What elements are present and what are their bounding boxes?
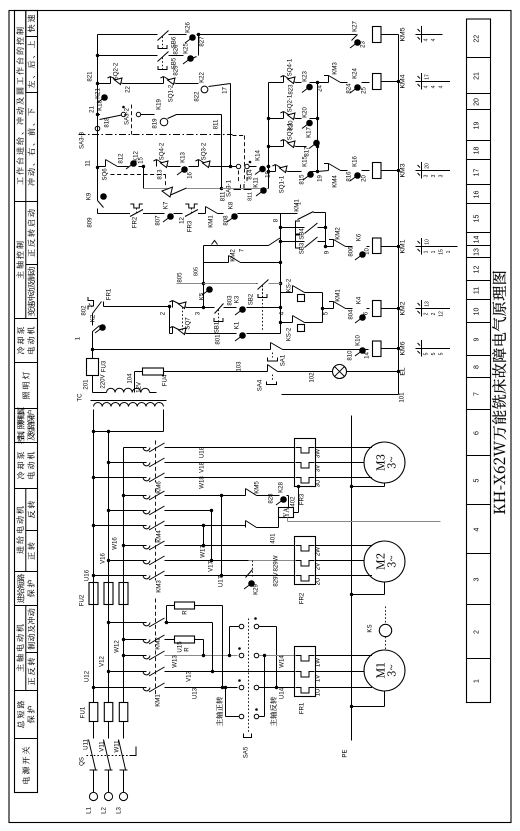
svg-text:K26: K26 (185, 21, 192, 32)
svg-text:4: 4 (431, 85, 437, 88)
svg-text:17: 17 (222, 87, 229, 94)
svg-text:V11: V11 (99, 741, 106, 752)
svg-text:K29: K29 (253, 583, 260, 594)
svg-text:L1: L1 (86, 807, 93, 814)
svg-text:809: 809 (87, 217, 94, 228)
svg-text:2: 2 (424, 312, 430, 315)
svg-text:19: 19 (317, 175, 324, 182)
svg-text:KM3: KM3 (332, 62, 339, 75)
svg-text:K7: K7 (163, 201, 170, 209)
svg-text:822: 822 (194, 91, 201, 102)
svg-text:U15: U15 (177, 641, 184, 653)
svg-text:FU3: FU3 (101, 360, 108, 372)
svg-text:12: 12 (179, 217, 186, 224)
svg-text:PE: PE (342, 749, 349, 757)
svg-text:SQ3-2: SQ3-2 (201, 142, 208, 160)
svg-text:KM4: KM4 (400, 74, 407, 88)
svg-text:KM2: KM2 (335, 227, 342, 240)
svg-text:W11: W11 (114, 740, 121, 753)
svg-text:3W: 3W (315, 449, 322, 458)
svg-text:3U: 3U (315, 480, 322, 488)
svg-text:K22: K22 (199, 71, 206, 82)
svg-text:K5: K5 (199, 292, 206, 300)
svg-text:12: 12 (439, 311, 445, 317)
svg-text:15: 15 (474, 215, 481, 223)
svg-text:V13: V13 (186, 670, 193, 681)
svg-text:W18: W18 (199, 476, 206, 489)
svg-text:25: 25 (361, 87, 368, 94)
svg-text:818: 818 (104, 117, 111, 128)
svg-text:5: 5 (424, 352, 430, 355)
svg-text:K9: K9 (86, 192, 93, 200)
svg-text:3: 3 (424, 174, 430, 177)
svg-text:SB1: SB1 (214, 321, 221, 333)
svg-text:R: R (182, 610, 189, 615)
svg-text:SA3-3: SA3-3 (79, 131, 86, 149)
svg-text:QS: QS (79, 757, 86, 766)
svg-text:FU4: FU4 (162, 374, 169, 386)
svg-text:2: 2 (474, 630, 481, 634)
svg-text:5: 5 (439, 352, 445, 355)
svg-text:FR1: FR1 (106, 288, 113, 300)
svg-text:103: 103 (236, 361, 243, 372)
svg-text:KS-2: KS-2 (286, 278, 293, 292)
svg-text:K1: K1 (234, 321, 241, 329)
svg-text:U13: U13 (192, 687, 199, 699)
svg-text:1: 1 (446, 250, 452, 253)
svg-text:KM2: KM2 (230, 249, 237, 262)
svg-text:K16: K16 (352, 155, 359, 166)
svg-text:SQ3-1: SQ3-1 (287, 122, 294, 140)
svg-text:14: 14 (474, 236, 481, 244)
svg-text:V12: V12 (99, 655, 106, 666)
svg-text:K13: K13 (180, 151, 187, 162)
svg-text:K23: K23 (302, 70, 309, 81)
svg-text:KM1: KM1 (400, 239, 407, 253)
svg-text:SQ4-1: SQ4-1 (287, 58, 294, 76)
svg-text:220V: 220V (100, 373, 107, 388)
svg-text:12V: 12V (136, 381, 143, 393)
svg-text:L2: L2 (101, 807, 108, 814)
svg-text:SQ1-2: SQ1-2 (168, 84, 175, 102)
svg-text:K19: K19 (156, 98, 163, 109)
svg-text:11: 11 (474, 287, 481, 294)
svg-text:825: 825 (173, 65, 180, 76)
svg-text:SB4: SB4 (299, 228, 306, 240)
svg-text:18: 18 (474, 147, 481, 155)
svg-text:K25: K25 (183, 42, 190, 53)
svg-text:SQ2-1: SQ2-1 (287, 94, 294, 112)
svg-text:1V: 1V (315, 674, 322, 682)
svg-text:W17: W17 (200, 545, 207, 558)
svg-text:4: 4 (431, 38, 437, 41)
svg-text:K21: K21 (95, 87, 102, 98)
svg-text:U11: U11 (83, 739, 90, 750)
svg-text:L3: L3 (116, 807, 123, 814)
svg-text:15: 15 (439, 249, 445, 255)
svg-text:K15: K15 (302, 155, 309, 166)
svg-text:817: 817 (304, 146, 311, 157)
svg-text:805: 805 (177, 272, 184, 283)
svg-text:K24: K24 (352, 67, 359, 78)
svg-text:FR3: FR3 (299, 493, 306, 505)
svg-text:K4: K4 (356, 296, 363, 304)
svg-text:KM4: KM4 (156, 530, 163, 543)
svg-text:FU2: FU2 (79, 594, 86, 606)
svg-text:KM5: KM5 (400, 27, 407, 41)
svg-text:22: 22 (125, 86, 132, 93)
svg-text:104: 104 (127, 373, 134, 384)
svg-text:W16: W16 (112, 537, 119, 550)
svg-text:3: 3 (439, 174, 445, 177)
svg-text:KM1: KM1 (208, 215, 215, 228)
svg-text:W14: W14 (279, 655, 286, 668)
svg-text:2V: 2V (315, 562, 322, 570)
svg-text:U14: U14 (279, 687, 286, 699)
svg-text:14: 14 (364, 352, 371, 359)
svg-text:SA1: SA1 (280, 354, 287, 366)
svg-text:13: 13 (474, 248, 481, 256)
svg-text:SQ6: SQ6 (102, 168, 109, 181)
svg-text:KM5: KM5 (254, 481, 261, 494)
svg-text:7: 7 (474, 392, 481, 396)
svg-text:20: 20 (474, 98, 481, 106)
svg-text:3V: 3V (315, 464, 322, 472)
svg-text:K17: K17 (306, 126, 313, 137)
svg-text:KM2: KM2 (400, 301, 407, 315)
svg-text:804: 804 (348, 309, 355, 320)
svg-text:401: 401 (270, 533, 277, 544)
svg-text:802: 802 (81, 305, 88, 316)
svg-text:R: R (184, 647, 191, 652)
svg-text:10: 10 (364, 248, 371, 255)
svg-text:K27: K27 (352, 20, 359, 31)
svg-text:2W: 2W (315, 547, 322, 556)
svg-text:SA4: SA4 (257, 379, 264, 391)
svg-text:SQ2-2: SQ2-2 (113, 62, 120, 80)
svg-text:3: 3 (431, 174, 437, 177)
svg-text:K10: K10 (355, 334, 362, 345)
svg-text:K6: K6 (356, 233, 363, 241)
svg-text:810: 810 (347, 350, 354, 361)
svg-text:805: 805 (194, 267, 200, 276)
svg-text:SQ4-2: SQ4-2 (159, 142, 166, 160)
svg-text:KM6: KM6 (156, 481, 163, 494)
svg-text:826: 826 (173, 44, 180, 55)
svg-text:TC: TC (77, 393, 84, 402)
svg-text:KM1: KM1 (294, 199, 301, 212)
svg-text:SQ7: SQ7 (185, 317, 192, 330)
svg-text:803: 803 (227, 295, 234, 306)
svg-text:V17: V17 (208, 560, 215, 571)
svg-text:829V: 829V (273, 571, 280, 586)
svg-text:K8: K8 (228, 201, 235, 209)
svg-text:1W: 1W (315, 658, 322, 667)
svg-text:FR2: FR2 (299, 592, 306, 604)
svg-text:K3: K3 (234, 295, 241, 303)
svg-text:SB2: SB2 (248, 293, 255, 305)
svg-text:SQ1-1: SQ1-1 (279, 175, 286, 193)
svg-text:FR1: FR1 (299, 702, 306, 714)
svg-text:801: 801 (215, 334, 222, 345)
svg-text:FR3: FR3 (187, 220, 194, 232)
svg-text:KS-2: KS-2 (286, 327, 293, 341)
svg-text:4: 4 (439, 85, 445, 88)
svg-text:201: 201 (83, 379, 90, 390)
svg-text:813: 813 (157, 169, 164, 180)
svg-text:K14: K14 (255, 149, 262, 160)
svg-text:10: 10 (425, 239, 431, 245)
svg-text:U17: U17 (218, 575, 225, 587)
svg-text:1: 1 (474, 679, 481, 683)
svg-text:1: 1 (424, 250, 430, 253)
svg-text:811: 811 (220, 191, 227, 201)
svg-text:SA5: SA5 (243, 746, 250, 758)
svg-text:K28: K28 (278, 481, 285, 492)
svg-text:19: 19 (474, 122, 481, 130)
svg-text:402: 402 (290, 496, 297, 507)
svg-text:2U: 2U (315, 578, 322, 586)
svg-text:15: 15 (138, 157, 145, 164)
svg-text:827: 827 (199, 36, 206, 47)
svg-text:U16: U16 (84, 569, 91, 581)
svg-text:823: 823 (288, 84, 295, 95)
svg-text:811: 811 (213, 119, 220, 129)
svg-text:KM2: KM2 (155, 637, 162, 650)
svg-text:821: 821 (87, 71, 94, 82)
svg-text:K11: K11 (253, 177, 260, 188)
svg-text:8: 8 (474, 365, 481, 369)
svg-text:2: 2 (431, 312, 437, 315)
svg-text:W13: W13 (172, 655, 179, 668)
svg-text:10: 10 (474, 308, 481, 316)
svg-text:W12: W12 (114, 640, 121, 653)
svg-text:1U: 1U (315, 689, 322, 697)
svg-text:17: 17 (474, 169, 481, 177)
svg-text:24: 24 (317, 85, 324, 92)
svg-text:V18: V18 (199, 461, 206, 472)
svg-text:828: 828 (268, 493, 275, 504)
svg-text:20: 20 (361, 175, 368, 182)
svg-text:K20: K20 (302, 106, 309, 117)
svg-text:SA3-2: SA3-2 (124, 107, 131, 125)
svg-text:829W: 829W (273, 555, 280, 571)
svg-text:1: 1 (431, 250, 437, 253)
svg-text:KM3: KM3 (156, 580, 163, 593)
svg-text:5: 5 (474, 478, 481, 482)
svg-text:22: 22 (474, 35, 481, 43)
svg-text:13: 13 (425, 301, 431, 307)
svg-text:V16: V16 (100, 552, 107, 563)
svg-text:101: 101 (399, 392, 406, 403)
svg-text:KM6: KM6 (400, 341, 407, 355)
svg-text:5: 5 (431, 352, 437, 355)
svg-text:EL: EL (400, 367, 407, 376)
svg-text:6: 6 (474, 431, 481, 435)
svg-text:4: 4 (474, 527, 481, 531)
svg-text:KS: KS (367, 624, 374, 632)
svg-text:11: 11 (85, 160, 92, 167)
svg-text:806: 806 (348, 246, 355, 257)
svg-text:4: 4 (424, 38, 430, 41)
svg-text:102: 102 (309, 372, 316, 383)
svg-text:U18: U18 (199, 446, 206, 458)
svg-text:FU1: FU1 (80, 706, 87, 718)
svg-text:3: 3 (474, 577, 481, 581)
svg-text:23: 23 (360, 41, 367, 48)
svg-text:4: 4 (424, 85, 430, 88)
svg-text:9: 9 (474, 337, 481, 341)
svg-text:811: 811 (248, 192, 254, 201)
svg-text:KM3: KM3 (400, 163, 407, 177)
svg-text:U12: U12 (84, 670, 91, 682)
svg-text:17: 17 (425, 74, 431, 80)
svg-text:808: 808 (223, 215, 230, 226)
svg-text:807: 807 (155, 215, 162, 226)
svg-text:21: 21 (474, 72, 481, 80)
svg-text:SB3: SB3 (299, 242, 306, 254)
svg-text:KM1: KM1 (155, 694, 162, 707)
svg-text:16: 16 (474, 191, 481, 199)
svg-text:12: 12 (474, 266, 481, 274)
svg-text:K18: K18 (97, 99, 104, 110)
svg-text:KM1: KM1 (335, 289, 342, 302)
svg-text:20: 20 (425, 163, 431, 169)
svg-text:812: 812 (118, 153, 125, 164)
svg-text:21: 21 (89, 106, 96, 113)
svg-text:16: 16 (187, 172, 194, 179)
svg-text:819: 819 (152, 118, 159, 129)
svg-text:KM4: KM4 (332, 175, 339, 188)
svg-text:FR2: FR2 (132, 216, 139, 228)
